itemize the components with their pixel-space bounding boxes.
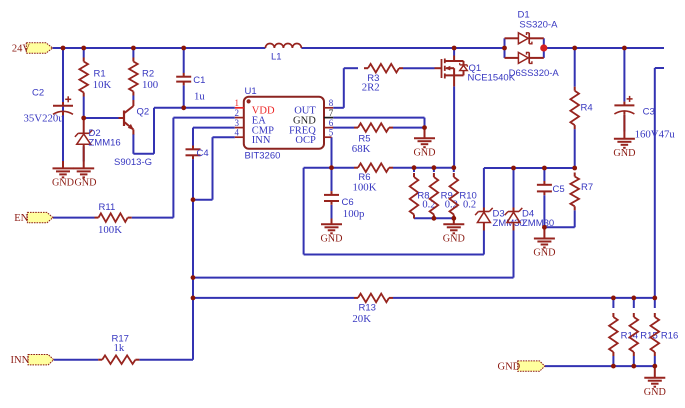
wire feedback bus upper — [193, 277, 514, 279]
C1 label — [193, 75, 205, 86]
svg-text:ZMM16: ZMM16 — [89, 138, 121, 149]
C5 label — [553, 184, 565, 195]
net flag INN — [28, 355, 54, 365]
wire Q1 drain — [453, 48, 455, 56]
svg-text:35V220u: 35V220u — [24, 113, 65, 125]
ground C2 label — [52, 178, 74, 189]
net label EN — [14, 213, 28, 224]
pin 5 OCP — [295, 127, 333, 146]
pin 6 FREQ — [289, 118, 334, 137]
junction bus lower — [191, 296, 196, 301]
junction pin7-R5-GND — [422, 125, 427, 130]
wire INN to R17 — [54, 359, 98, 361]
svg-text:6: 6 — [329, 118, 334, 128]
svg-text:Q2: Q2 — [137, 107, 150, 118]
wire D6 bottom branch — [505, 57, 544, 59]
pin 2 EA — [235, 108, 267, 127]
wire D3 top lead — [483, 168, 485, 208]
inductor L1 — [265, 44, 301, 49]
svg-text:10K: 10K — [93, 79, 112, 91]
svg-text:8: 8 — [329, 98, 334, 108]
wire D1 top branch — [505, 37, 544, 39]
ground under C5 — [534, 227, 555, 247]
wire R4 bottom lead — [574, 129, 576, 168]
junction 24V-R2 — [131, 46, 136, 51]
svg-text:R11: R11 — [99, 202, 116, 213]
net label INN — [11, 355, 30, 366]
D6 label and value — [509, 68, 560, 79]
wire R7 bottom run — [544, 210, 574, 227]
D3 label — [493, 209, 505, 220]
D4 label — [522, 209, 534, 220]
R11 value 100K — [98, 224, 122, 236]
wire D3 bottom lead — [483, 231, 485, 255]
ground pin7 label — [413, 147, 435, 158]
pin 8 OUT — [294, 98, 334, 117]
transistor Q2 — [119, 100, 134, 135]
wire pin 3 CMP left — [193, 127, 235, 129]
R1 value 10K — [93, 79, 112, 91]
ground under D2 — [73, 150, 94, 177]
wire sense resistor top leads — [613, 298, 654, 308]
svg-text:100: 100 — [142, 79, 158, 91]
resistor R17 — [98, 355, 139, 364]
wire main 24V rail — [53, 47, 664, 49]
junction R1-D2-Q2 base — [81, 116, 86, 121]
R9 value 0.2 — [445, 200, 458, 211]
diode D4 zener ZMM30 — [505, 208, 523, 231]
resistor R13 — [354, 294, 393, 303]
svg-text:C3: C3 — [643, 106, 655, 117]
junction 24V-R4 — [572, 46, 577, 51]
net label 24V — [12, 44, 31, 55]
svg-text:R2: R2 — [142, 69, 154, 80]
ground C5 label — [533, 248, 555, 259]
C1 value 1u — [194, 91, 205, 103]
R15 label — [640, 331, 657, 342]
R5 label — [358, 134, 370, 145]
net flag GND — [518, 361, 545, 371]
resistor R1 — [79, 58, 88, 97]
wire D2 anode to ground — [83, 147, 85, 162]
wire R1 to node — [83, 97, 85, 119]
svg-text:68K: 68K — [352, 143, 371, 155]
R2 label — [142, 69, 154, 80]
R11 label — [99, 202, 116, 213]
junction shunt bottom R10-GND — [451, 216, 456, 221]
svg-text:SS320-A: SS320-A — [519, 19, 558, 30]
junction 24V-Q1 drain — [452, 46, 457, 51]
wire shunt tops — [414, 168, 454, 172]
pin 3 CMP — [235, 118, 275, 137]
svg-text:2R2: 2R2 — [362, 82, 380, 94]
wire CMP to C4 — [192, 128, 194, 146]
svg-text:GND: GND — [644, 387, 666, 398]
resistor R8 — [410, 173, 419, 219]
wire D4 to feedback bus — [513, 231, 515, 278]
node A — [191, 197, 196, 202]
wire R2 branch top — [132, 48, 134, 58]
svg-text:GND: GND — [320, 234, 342, 245]
ground under C6 — [321, 219, 342, 234]
wire Q2 emitter to VDD run — [133, 108, 154, 154]
svg-text:C4: C4 — [197, 148, 209, 159]
resistor R9 — [430, 173, 439, 219]
capacitor C1 — [176, 73, 191, 86]
C6 value 100p — [343, 208, 365, 220]
resistor R5 — [354, 123, 393, 132]
junction R6-R8 — [412, 165, 417, 170]
C3 label — [643, 106, 655, 117]
ground pin7 R5 — [414, 128, 435, 148]
ground bottom right label — [644, 387, 666, 398]
wire sense block top — [484, 167, 575, 169]
net flag EN — [27, 212, 53, 222]
D1 value SS320-A — [519, 19, 558, 30]
wire C5 top lead — [543, 168, 545, 181]
junction C1-VDD — [181, 105, 186, 110]
resistor R16 — [651, 313, 660, 356]
svg-text:100K: 100K — [353, 182, 377, 194]
wire EN to R11 — [53, 217, 95, 219]
wire pin 7 GND right — [333, 118, 424, 128]
svg-text:GND: GND — [498, 362, 521, 373]
ground under shunts — [443, 218, 464, 233]
svg-text:C2: C2 — [32, 88, 44, 99]
svg-text:GND: GND — [74, 178, 96, 189]
wire C4 bottom to node A — [192, 159, 194, 200]
R13 label — [359, 303, 376, 314]
op-amp U1 BIT3260 body — [244, 97, 324, 149]
C4 label — [197, 148, 209, 159]
ground C6 label — [320, 234, 342, 245]
resistor R14 — [609, 313, 618, 356]
junction R6-R10-Q1 source — [451, 165, 456, 170]
svg-text:INN: INN — [252, 135, 271, 146]
wire R5 to ground node — [393, 127, 425, 129]
svg-text:GND: GND — [52, 178, 74, 189]
wire C3 bottom lead — [623, 115, 625, 132]
wire R1 branch top — [83, 48, 85, 58]
C3 value 160V47u — [635, 129, 676, 141]
svg-text:D6SS320-A: D6SS320-A — [509, 68, 560, 79]
R17 value 1k — [114, 342, 125, 354]
svg-text:160V47u: 160V47u — [635, 129, 676, 141]
svg-text:U1: U1 — [245, 86, 257, 97]
net flag 24V — [26, 43, 52, 53]
capacitor C2 — [53, 96, 73, 115]
svg-text:2: 2 — [235, 108, 240, 118]
R16 label — [661, 331, 678, 342]
R10 label — [459, 191, 476, 202]
wire pin 6 FREQ to R5 — [333, 127, 354, 129]
R8 label — [417, 191, 429, 202]
svg-text:1u: 1u — [194, 91, 205, 103]
capacitor C3 — [614, 96, 634, 115]
capacitor C5 — [537, 181, 552, 195]
R3 value 2R2 — [362, 82, 380, 94]
svg-text:C5: C5 — [553, 184, 565, 195]
R9 label — [441, 191, 453, 202]
junction GND bus R14 — [611, 364, 616, 369]
junction 24V-R1 — [81, 46, 86, 51]
pin 4 INN — [235, 127, 271, 146]
svg-text:EN: EN — [14, 213, 28, 224]
wire C3 top lead — [623, 48, 625, 102]
diode D3 zener ZMM30 — [475, 208, 493, 231]
R4 label — [581, 102, 593, 113]
resistor R11 — [95, 213, 132, 222]
ground under C3 — [614, 115, 635, 148]
resistor R6 — [354, 163, 393, 172]
wire C5 bottom lead — [543, 195, 545, 227]
svg-text:ZMM30: ZMM30 — [522, 218, 554, 229]
svg-text:1k: 1k — [114, 342, 125, 354]
wire R3 to Q1 gate — [403, 67, 435, 69]
wire pin 5 OCP down — [331, 137, 333, 168]
junction 24V-D1 left — [502, 46, 507, 51]
U1 label — [245, 86, 257, 97]
junction GND bus R16 — [652, 364, 657, 369]
svg-text:100K: 100K — [98, 224, 122, 236]
transistor Q1 NCE1540K — [435, 56, 468, 87]
wire C1 branch top — [183, 48, 185, 73]
R7 label — [581, 182, 593, 193]
svg-text:GND: GND — [613, 148, 635, 159]
svg-text:C6: C6 — [342, 197, 354, 208]
svg-text:100p: 100p — [343, 208, 365, 220]
C6 label — [342, 197, 354, 208]
wire R4 top lead — [574, 48, 576, 87]
resistor R2 — [129, 58, 138, 96]
Q2 part S9013-G — [114, 157, 152, 168]
wire R6 to shunts — [393, 167, 454, 169]
junction C5-R7-GND — [542, 225, 547, 230]
wire right return vertical — [655, 68, 664, 298]
svg-text:5: 5 — [329, 127, 334, 137]
svg-text:R7: R7 — [581, 182, 593, 193]
junction R6-R9 — [432, 165, 437, 170]
ground bottom right — [644, 366, 665, 387]
svg-text:GND: GND — [533, 248, 555, 259]
Q1 label — [469, 63, 482, 74]
junction sense top C5 — [542, 166, 547, 171]
junction R13 bus R15 — [631, 296, 636, 301]
svg-text:R1: R1 — [94, 69, 106, 80]
wire shunt bottoms — [414, 216, 454, 218]
wire sense resistor bottom leads — [613, 356, 654, 366]
junction R13 bus R14 — [611, 296, 616, 301]
D1 label — [518, 10, 530, 21]
capacitor C4 — [186, 146, 201, 160]
svg-text:1: 1 — [235, 98, 240, 108]
svg-text:S9013-G: S9013-G — [114, 157, 152, 168]
resistor R10 — [450, 173, 459, 219]
pin 1 VDD — [235, 98, 275, 117]
R14 label — [621, 331, 638, 342]
R10 value 0.2 — [463, 200, 476, 211]
wire pin 2 EA left — [173, 117, 234, 119]
wire pin 8 OUT to R3 — [333, 68, 358, 108]
svg-text:GND: GND — [413, 147, 435, 158]
D2 part ZMM16 — [89, 138, 121, 149]
junction 24V-C3 — [622, 46, 627, 51]
wire VDD row to pin 1 — [154, 107, 235, 109]
wire C6 top — [331, 168, 333, 191]
wire pin 4 INN left — [213, 136, 235, 138]
wire GND flag bus — [545, 365, 655, 367]
svg-text:L1: L1 — [271, 52, 282, 63]
junction bus upper — [191, 275, 196, 280]
junction GND bus R15 — [631, 364, 636, 369]
Q2 label — [137, 107, 150, 118]
resistor R15 — [630, 313, 639, 356]
U1 pin 1 marker dot — [247, 99, 251, 103]
net label GND — [498, 362, 521, 373]
R17 label — [112, 334, 129, 345]
svg-text:R16: R16 — [661, 331, 678, 342]
wire EA vertical to EN — [172, 118, 174, 218]
wire C2 branch — [62, 48, 64, 161]
wire OCP node row left — [304, 167, 354, 169]
svg-text:4: 4 — [235, 127, 240, 137]
junction 24V-D1 right — [540, 44, 547, 51]
Q1 part NCE1540K — [468, 73, 516, 84]
wire R13 bus left — [193, 297, 354, 299]
wire D4 top lead — [513, 168, 515, 208]
wire R17 to bus — [139, 359, 193, 361]
C2 label — [32, 88, 44, 99]
wire D1 parallel bars — [505, 38, 544, 58]
wire R11 to EA vertical — [132, 217, 174, 219]
resistor R7 — [570, 173, 579, 211]
junction sense top D4 — [511, 166, 516, 171]
wire Q1 source down — [453, 86, 455, 167]
svg-text:3: 3 — [235, 118, 240, 128]
R1 label — [94, 69, 106, 80]
R6 label — [358, 172, 370, 183]
svg-text:7: 7 — [329, 108, 334, 118]
wire R2 to Q2 collector — [132, 96, 134, 101]
diode D2 zener — [75, 118, 93, 150]
R5 value 68K — [352, 143, 371, 155]
wire OCP loop down-right — [304, 168, 484, 255]
R2 value 100 — [142, 79, 158, 91]
svg-text:R4: R4 — [581, 102, 593, 113]
ground D2 label — [74, 178, 96, 189]
ground C3 label — [613, 148, 635, 159]
wire C6 bottom to ground — [331, 205, 333, 219]
C2 value 35V220u — [24, 113, 65, 125]
wire node to Q2 base — [84, 117, 119, 119]
D2 label — [89, 128, 101, 139]
junction shunt bottom R9 — [432, 216, 437, 221]
diode D6 SS320-A — [518, 52, 532, 63]
wire R13 bus right — [393, 297, 655, 299]
capacitor C6 — [324, 191, 339, 205]
svg-text:OCP: OCP — [295, 135, 316, 146]
ground shunts label — [443, 234, 465, 245]
L1 label — [271, 52, 282, 63]
svg-text:20K: 20K — [352, 313, 371, 325]
svg-text:0.2: 0.2 — [463, 200, 476, 211]
resistor R4 — [570, 87, 579, 129]
pin 7 GND — [293, 108, 334, 127]
junction 24V-C1 — [181, 46, 186, 51]
junction 24V-C2 — [61, 46, 66, 51]
junction sense top R4-R7 — [572, 166, 577, 171]
D4 part ZMM30 — [522, 218, 554, 229]
svg-text:BIT3260: BIT3260 — [245, 151, 281, 162]
wire Q2 emitter down — [132, 134, 134, 154]
junction OCP-C6 — [329, 165, 334, 170]
junction R13 bus R16 — [652, 296, 657, 301]
diode D1 SS320-A — [518, 33, 532, 44]
R3 label — [367, 73, 379, 84]
svg-text:GND: GND — [443, 234, 465, 245]
resistor R3 — [364, 64, 403, 73]
R8 value 0.2 — [422, 200, 435, 211]
R13 value 20K — [352, 313, 371, 325]
svg-text:INN: INN — [11, 355, 30, 366]
wire shunt bottom bus — [414, 217, 454, 219]
R6 value 100K — [353, 182, 377, 194]
ground under C2 — [53, 161, 74, 177]
wire node A to pin 4 riser — [193, 137, 213, 200]
wire C1 bottom to VDD row — [183, 85, 185, 107]
D3 part ZMM30 — [493, 218, 525, 229]
wire node A to INN bus — [192, 200, 194, 360]
U1 part BIT3260 — [245, 151, 281, 162]
svg-text:C1: C1 — [193, 75, 205, 86]
svg-text:24V: 24V — [12, 44, 31, 55]
